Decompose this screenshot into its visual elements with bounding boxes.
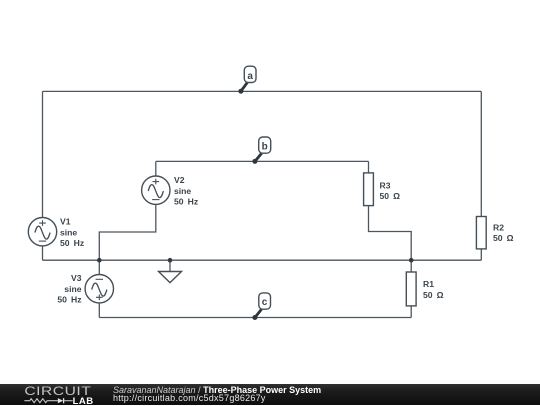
wire left vertical to V1 top <box>42 91 44 217</box>
wire V2 top <box>155 161 157 176</box>
node junction at ground <box>168 258 173 263</box>
wire R2 bottom to mid rail <box>480 249 482 260</box>
wire R1 top <box>410 260 412 272</box>
logo diode <box>58 398 63 403</box>
ground symbol <box>159 272 182 283</box>
footer bar <box>0 384 540 405</box>
node flag b <box>252 137 270 164</box>
node junction at R1 top <box>409 258 414 263</box>
voltage source V3 (inverted polarity) <box>85 275 113 303</box>
svg-text:R1: R1 <box>423 279 434 289</box>
svg-text:sine: sine <box>64 284 81 294</box>
svg-text:50 Hz: 50 Hz <box>60 238 84 248</box>
footer url line <box>113 393 266 403</box>
svg-text:50 Hz: 50 Hz <box>174 197 198 207</box>
wire mid rail <box>43 259 482 261</box>
svg-text:V1: V1 <box>60 217 71 227</box>
node flag a <box>238 66 256 94</box>
R3 label <box>380 180 401 201</box>
V2 label <box>174 175 198 207</box>
svg-text:b: b <box>262 142 268 153</box>
wire R3 bottom to junction <box>369 206 412 261</box>
R2 label <box>493 222 514 243</box>
voltage source V1 <box>28 218 56 246</box>
wire ground stub <box>169 260 171 271</box>
wire V1 bottom to mid rail <box>42 246 44 260</box>
svg-text:c: c <box>262 297 268 308</box>
V1 label <box>60 217 84 249</box>
svg-text:V3: V3 <box>71 273 82 283</box>
wire R1 bottom <box>410 306 412 318</box>
svg-text:LAB: LAB <box>73 396 94 406</box>
svg-text:50 Hz: 50 Hz <box>57 295 81 305</box>
wire right vertical to R2 top <box>480 91 482 216</box>
svg-text:50 Ω: 50 Ω <box>493 233 514 243</box>
wire V3 top to junction <box>98 260 100 274</box>
svg-text:R3: R3 <box>380 180 391 190</box>
wire drop to R3 top <box>368 161 370 173</box>
wire b-phase horizontal <box>156 160 369 162</box>
svg-text:sine: sine <box>60 227 77 237</box>
svg-text:a: a <box>247 71 253 82</box>
node junction at V3 top <box>97 258 102 263</box>
logo resistor zigzag <box>24 398 57 402</box>
R1 label <box>423 279 444 300</box>
svg-text:R2: R2 <box>493 222 504 232</box>
resistor R2 <box>476 217 486 249</box>
svg-text:50 Ω: 50 Ω <box>423 290 444 300</box>
wire V3 bottom <box>98 303 100 318</box>
node flag c <box>252 293 270 320</box>
footer title line <box>113 385 321 395</box>
svg-text:sine: sine <box>174 186 191 196</box>
CircuitLab logo <box>0 385 110 406</box>
resistor R3 <box>364 173 374 206</box>
svg-text:V2: V2 <box>174 175 185 185</box>
wire V2 bottom to V3 junction <box>99 204 156 260</box>
resistor R1 <box>406 272 416 306</box>
voltage source V2 <box>142 176 170 204</box>
svg-text:50 Ω: 50 Ω <box>380 191 401 201</box>
wire top a-phase <box>43 90 482 92</box>
V3 label <box>57 273 81 305</box>
wire bottom c-phase <box>99 317 411 319</box>
